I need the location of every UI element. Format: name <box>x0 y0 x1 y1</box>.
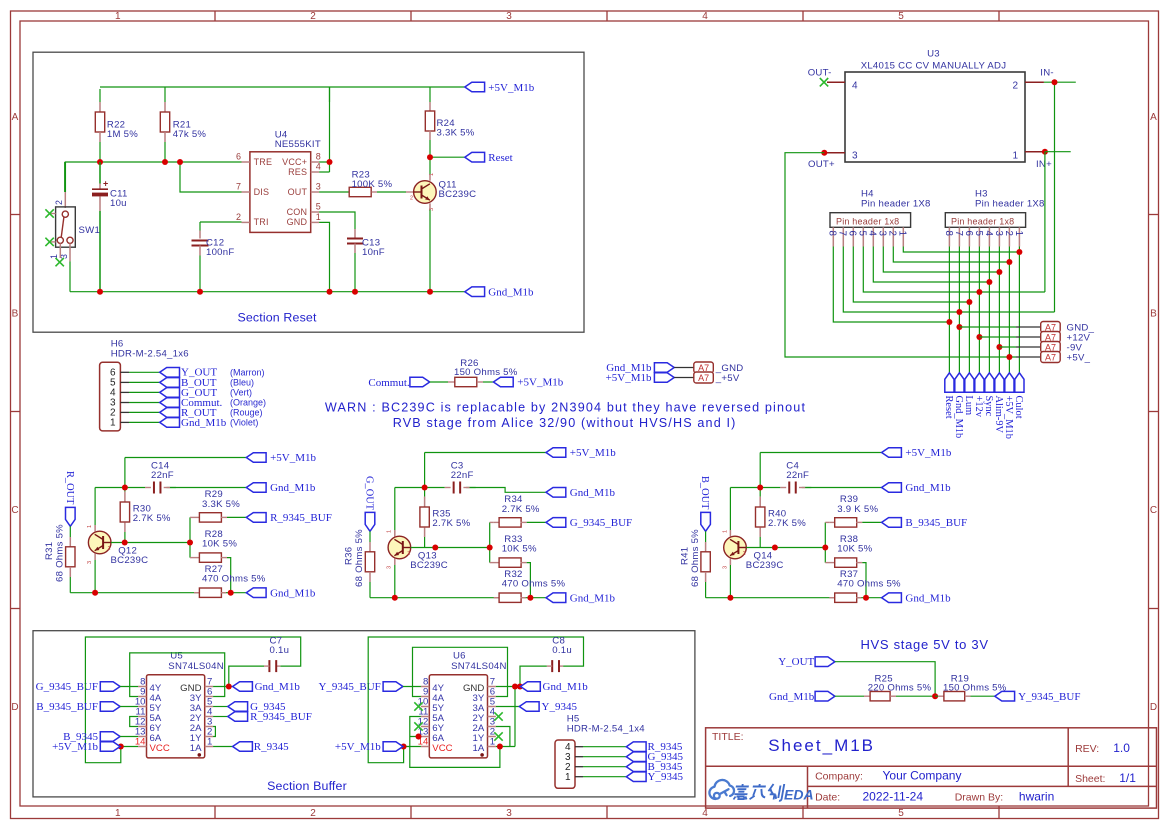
svg-text:(Violet): (Violet) <box>230 418 258 428</box>
svg-text:+5V_: +5V_ <box>1067 353 1091 364</box>
ic U3 XL4015 <box>845 72 1025 162</box>
resistor R36 68 Ohms <box>369 542 371 552</box>
net flag +5V_M1b stage Q14 <box>882 448 902 458</box>
svg-text:Gnd_M1b: Gnd_M1b <box>488 286 534 298</box>
pin U3 pin1 IN+ <box>1025 151 1045 153</box>
svg-text:+12v: +12v <box>973 396 984 418</box>
svg-text:IN-: IN- <box>1040 68 1054 79</box>
svg-text:(Marron): (Marron) <box>230 368 265 378</box>
svg-text:BC239C: BC239C <box>746 560 784 571</box>
wire G_OUT to R36 <box>369 531 371 542</box>
svg-text:R41: R41 <box>679 547 690 565</box>
net flag H5 Y_9345 <box>626 772 646 782</box>
svg-text:4: 4 <box>852 81 858 92</box>
net flag Y_9345 from U6 pin5 <box>496 706 519 708</box>
svg-text:Gnd_M1b: Gnd_M1b <box>570 592 616 604</box>
resistor R27 470 Ohms <box>194 592 200 594</box>
junction dots base row Q14 <box>772 545 778 551</box>
wire R_OUT to R31 <box>69 526 71 537</box>
net flag H6 Commut. <box>160 398 180 408</box>
svg-text:VCC: VCC <box>432 743 452 754</box>
svg-text:Reset: Reset <box>943 396 954 419</box>
svg-text:3: 3 <box>87 561 93 564</box>
svg-text:TRE: TRE <box>254 157 273 167</box>
junction dot reset <box>427 154 433 160</box>
svg-text:XL4015 CC CV MANUALLY ADJ: XL4015 CC CV MANUALLY ADJ <box>861 60 1007 71</box>
svg-text:2.7K 5%: 2.7K 5% <box>768 518 806 529</box>
resistor ('R39', '3.9 K 5%') feedback <box>825 521 829 523</box>
net port A7 -9V <box>996 344 1002 350</box>
svg-text:10u: 10u <box>110 198 127 209</box>
svg-text:HDR-M-2.54_1x4: HDR-M-2.54_1x4 <box>567 724 646 735</box>
resistor R35 (base pullup) <box>424 497 426 507</box>
svg-text:5: 5 <box>316 201 321 211</box>
svg-text:22nF: 22nF <box>451 470 474 481</box>
capacitor C11 <box>99 162 101 184</box>
wire R26 to +5V flag <box>483 381 493 383</box>
net flag Gnd_M1b cap row Q12 <box>246 483 266 493</box>
svg-text:6: 6 <box>236 151 241 161</box>
svg-text:1: 1 <box>87 525 93 528</box>
net flag Gnd_M1b stage Q13 <box>546 593 566 603</box>
svg-text:A7: A7 <box>1045 352 1056 362</box>
junction dot U6 VCC flag <box>401 744 407 750</box>
resistor R33 10K <box>490 562 500 564</box>
svg-text:1: 1 <box>110 418 116 429</box>
net port A7 +5V_ <box>1006 354 1012 360</box>
transistor Q11 <box>414 181 437 204</box>
wire U5 pin7 gnd <box>213 686 233 688</box>
junction dot cap row Q14 <box>757 485 763 491</box>
svg-text:2: 2 <box>108 546 111 552</box>
net flag +5V_M1b <box>465 82 485 92</box>
svg-text:R36: R36 <box>344 547 355 565</box>
svg-text:+5V_M1b: +5V_M1b <box>488 82 534 94</box>
net flag R_9345_BUF <box>246 513 266 523</box>
no-connect x SW1 mid <box>50 241 56 243</box>
net flag +5V_M1b stage Q13 <box>546 448 566 458</box>
svg-text:68 Ohms 5%: 68 Ohms 5% <box>55 524 66 582</box>
svg-text:D: D <box>1150 702 1157 713</box>
svg-text:10nF: 10nF <box>362 247 385 258</box>
junction dot VCC pin8 <box>327 159 333 165</box>
net flag Gnd_M1b U5 <box>233 682 253 692</box>
no-connect x SW1 pin2side <box>50 213 56 215</box>
capacitor C4 22nF <box>780 487 786 489</box>
svg-text:3.3K 5%: 3.3K 5% <box>202 499 240 510</box>
svg-text:1A: 1A <box>190 743 202 754</box>
svg-text:10K 5%: 10K 5% <box>502 544 537 555</box>
junction dot cap row Q12 <box>122 485 128 491</box>
transistor Q12 BC239C <box>88 531 111 554</box>
net flag R_9345 from U5 pin1 <box>213 746 233 748</box>
svg-text:Gnd_M1b: Gnd_M1b <box>270 587 316 599</box>
resistor R32 470 Ohms <box>494 597 500 599</box>
svg-text:Gnd_M1b: Gnd_M1b <box>905 482 951 494</box>
svg-text:SW1: SW1 <box>79 225 101 236</box>
wire U5 VCC rail loop <box>85 637 300 763</box>
resistor R21 <box>164 102 166 112</box>
svg-text:Reset: Reset <box>488 152 512 164</box>
svg-text:HDR-M-2.54_1x6: HDR-M-2.54_1x6 <box>111 348 189 359</box>
svg-text:(Vert): (Vert) <box>230 388 252 398</box>
wire reset row / collector <box>430 140 465 174</box>
wire +5V rail <box>100 87 465 102</box>
svg-text:1: 1 <box>207 736 212 747</box>
svg-text:3: 3 <box>506 11 512 22</box>
svg-text:SN74LS04N: SN74LS04N <box>168 661 224 672</box>
wire U6 1A to GND pin <box>496 687 515 747</box>
svg-text:47k 5%: 47k 5% <box>173 129 207 140</box>
svg-text:2: 2 <box>1003 231 1014 236</box>
net flag Gnd_M1b stage Q14 <box>882 593 902 603</box>
junction dot OUT+ <box>821 150 827 156</box>
svg-text:CON: CON <box>287 207 308 217</box>
svg-text:R_9345_BUF: R_9345_BUF <box>270 512 332 524</box>
svg-text:1.0: 1.0 <box>1113 741 1130 755</box>
svg-text:Company:: Company: <box>815 770 863 782</box>
net flag H6 B_OUT <box>160 378 180 388</box>
svg-text:C: C <box>1150 505 1157 516</box>
svg-text:150 Ohms 5%: 150 Ohms 5% <box>943 683 1007 694</box>
svg-text:Commut.: Commut. <box>368 377 410 389</box>
wire gnd row stage Q12 <box>70 592 246 594</box>
wire IN+ net <box>1045 152 1071 292</box>
junction dot cap row Q13 <box>422 485 428 491</box>
svg-text:DIS: DIS <box>254 187 270 197</box>
svg-text:HVS stage 5V to 3V: HVS stage 5V to 3V <box>860 637 988 652</box>
resistor R28 10K <box>190 557 200 559</box>
net flag G_9345 from U5 pin5 <box>213 706 228 708</box>
svg-text:100K 5%: 100K 5% <box>352 179 393 190</box>
svg-text:Sync: Sync <box>983 396 994 417</box>
svg-text:8: 8 <box>827 231 838 237</box>
wire gnd row stage Q14 <box>706 597 882 599</box>
svg-text:BC239C: BC239C <box>111 555 149 566</box>
resistor R25 220 Ohms <box>864 695 870 697</box>
svg-text:C: C <box>11 505 18 516</box>
svg-text:4: 4 <box>983 231 994 237</box>
svg-text:3: 3 <box>877 231 888 237</box>
svg-text:R_9345_BUF: R_9345_BUF <box>250 711 312 723</box>
wire gnd to R25 <box>835 695 864 697</box>
svg-text:VCC: VCC <box>150 743 170 754</box>
jlc eda logo CJK text <box>733 784 784 801</box>
net flag H6 Y_OUT <box>160 368 180 378</box>
svg-text:1A: 1A <box>473 743 485 754</box>
junction dots H4-H3 matrix <box>1016 249 1022 255</box>
net flag H5 R_9345 <box>626 742 646 752</box>
svg-text:68 Ohms 5%: 68 Ohms 5% <box>690 529 701 587</box>
svg-text:5: 5 <box>857 231 868 237</box>
net flag B_9345_BUF <box>882 518 902 528</box>
svg-text:3: 3 <box>993 231 1004 237</box>
jlc eda logo cloud icon <box>709 780 734 799</box>
svg-text:TRI: TRI <box>254 217 269 227</box>
svg-text:2.7K 5%: 2.7K 5% <box>432 518 470 529</box>
svg-text:6: 6 <box>963 231 974 237</box>
net flag Gnd_M1b cap row Q14 <box>882 483 902 493</box>
svg-text:1M 5%: 1M 5% <box>107 129 138 140</box>
junction dots TRE row <box>97 159 103 165</box>
svg-text:Gnd_M1b: Gnd_M1b <box>543 681 589 693</box>
svg-text:+: + <box>103 179 108 189</box>
svg-text:220 Ohms 5%: 220 Ohms 5% <box>868 683 932 694</box>
svg-text:68 Ohms 5%: 68 Ohms 5% <box>354 529 365 587</box>
svg-text:Culot: Culot <box>1013 396 1024 419</box>
svg-text:U5: U5 <box>170 651 183 662</box>
svg-text:B_9345: B_9345 <box>63 731 98 743</box>
resistor ('R34', '2.7K 5%') feedback <box>490 521 494 523</box>
svg-text:A: A <box>1150 112 1157 123</box>
svg-text:(Orange): (Orange) <box>230 398 266 408</box>
capacitor C13 <box>354 229 356 239</box>
svg-text:3.3K 5%: 3.3K 5% <box>437 128 475 139</box>
wire U6 4A to 3Y loop <box>413 647 508 696</box>
svg-text:1/1: 1/1 <box>1119 771 1136 785</box>
svg-text:Gnd_M1b: Gnd_M1b <box>270 482 316 494</box>
svg-text:4: 4 <box>316 161 321 171</box>
svg-text:10K 5%: 10K 5% <box>202 539 237 550</box>
resistor R30 (base pullup) <box>124 492 126 502</box>
pin1 marker U6 <box>480 753 484 757</box>
svg-text:0.1u: 0.1u <box>552 645 572 656</box>
wire CON row <box>319 212 355 229</box>
svg-text:3: 3 <box>316 181 321 191</box>
svg-text:BC239C: BC239C <box>439 189 477 200</box>
capacitor C14 22nF <box>145 487 151 489</box>
wire U6 2A to gnd net <box>496 727 510 747</box>
svg-text:1: 1 <box>316 212 321 222</box>
wire Y_OUT to divider <box>835 662 935 697</box>
wire base row Q13 <box>411 522 490 562</box>
svg-text:14: 14 <box>135 736 146 747</box>
svg-text:U6: U6 <box>453 651 466 662</box>
svg-text:2: 2 <box>410 196 413 202</box>
wire GND pin1 row <box>319 222 329 291</box>
wire H4 matrix rows <box>833 247 1054 323</box>
svg-text:+5V_M1b: +5V_M1b <box>905 447 951 459</box>
wire cap row stage Q14 <box>730 488 881 531</box>
wire collector Q12 <box>94 525 96 532</box>
junction dots U6 1A <box>497 744 503 750</box>
svg-text:+5V_M1b: +5V_M1b <box>570 447 616 459</box>
section buffer bounding box <box>33 631 695 797</box>
wire TRE row / node pin6 <box>65 142 242 192</box>
net flag Gnd_M1b U6 <box>521 682 541 692</box>
svg-text:B: B <box>1150 309 1157 320</box>
resistor ('R29', '3.3K 5%') feedback <box>190 516 194 518</box>
svg-text:4: 4 <box>702 808 708 819</box>
svg-text:Section Buffer: Section Buffer <box>267 779 347 793</box>
svg-text:2: 2 <box>310 808 316 819</box>
wire U5 2A-1Y loop <box>213 727 215 737</box>
svg-text:7: 7 <box>837 231 848 236</box>
net flag Reset <box>465 152 485 162</box>
capacitor C7 0.1u <box>276 665 280 667</box>
junction dots base row Q12 <box>122 540 128 546</box>
net port A7 +12V <box>976 334 982 340</box>
net flag Gnd_M1b reset <box>465 287 485 297</box>
svg-text:Y_9345: Y_9345 <box>648 771 684 783</box>
svg-text:0.1u: 0.1u <box>270 645 290 656</box>
svg-text:2: 2 <box>310 11 316 22</box>
capacitor C8 0.1u <box>559 665 563 667</box>
wire VCC-RES vertical <box>319 87 329 172</box>
svg-text:1: 1 <box>565 772 571 783</box>
svg-text:Gnd_M1b: Gnd_M1b <box>181 417 227 429</box>
svg-text:2.7K 5%: 2.7K 5% <box>502 504 540 515</box>
svg-text:OUT-: OUT- <box>808 68 832 79</box>
net flag R_9345_BUF from U5 pin4 <box>213 716 228 718</box>
svg-text:3: 3 <box>506 808 512 819</box>
pin1 marker U5 <box>198 753 202 757</box>
svg-text:R31: R31 <box>44 542 55 560</box>
svg-text:5: 5 <box>898 11 904 22</box>
pin U3 pin2 IN- <box>1025 81 1044 83</box>
wire IN- net <box>1044 82 1076 312</box>
svg-text:+5V_M1b: +5V_M1b <box>517 377 563 389</box>
wire emitter Q12 <box>94 554 96 561</box>
svg-text:7: 7 <box>953 231 964 236</box>
svg-text:VCC+: VCC+ <box>282 157 307 167</box>
svg-text:Y_9345_BUF: Y_9345_BUF <box>1018 691 1080 703</box>
svg-text:3: 3 <box>722 566 728 569</box>
junction dots gnd row Q12 <box>92 590 98 596</box>
no-connect x U6 pin2 <box>494 732 502 740</box>
svg-text:4: 4 <box>867 231 878 237</box>
resistor R31 68 Ohms <box>69 537 71 547</box>
wire +5V rail stage Q14 <box>760 453 881 497</box>
net flag H6 R_OUT <box>160 408 180 418</box>
net flag Gnd_M1b stage Q12 <box>246 588 266 598</box>
svg-text:G_9345_BUF: G_9345_BUF <box>570 517 632 529</box>
svg-text:1: 1 <box>1012 151 1018 162</box>
resistor R41 68 Ohms <box>705 542 707 552</box>
net flag H5 G_9345 <box>626 752 646 762</box>
capacitor C3 22nF <box>445 487 451 489</box>
junction dot U5 VCC flag <box>118 744 124 750</box>
svg-text:Gnd_M1b: Gnd_M1b <box>953 396 964 439</box>
svg-text:Y_9345_BUF: Y_9345_BUF <box>318 681 380 693</box>
resistor R38 10K <box>825 562 835 564</box>
wire gnd row stage Q13 <box>370 597 546 599</box>
resistor R24 <box>429 102 431 112</box>
svg-text:TITLE:: TITLE: <box>712 731 744 743</box>
svg-text:+5V_M1b: +5V_M1b <box>270 452 316 464</box>
resistor R19 150 Ohms <box>935 695 938 697</box>
net flag Y_9345_BUF hvs <box>995 691 1015 701</box>
svg-text:B_9345_BUF: B_9345_BUF <box>905 517 967 529</box>
svg-text:A7: A7 <box>698 373 709 383</box>
svg-text:Your Company: Your Company <box>883 768 962 782</box>
wire collector Q13 <box>394 530 396 537</box>
svg-text:G_9345_BUF: G_9345_BUF <box>36 681 98 693</box>
junction dot hvs divider <box>932 693 938 699</box>
wire cap row stage Q13 <box>395 488 546 531</box>
resistor R22 <box>99 102 101 112</box>
wire collector Q14 <box>729 530 731 537</box>
svg-text:REV:: REV: <box>1075 743 1099 755</box>
wire C11 to gnd <box>99 211 101 292</box>
wire SW1 pin3 to gnd <box>69 243 71 261</box>
svg-text:(Rouge): (Rouge) <box>230 408 263 418</box>
svg-text:2: 2 <box>887 231 898 236</box>
svg-text:470 Ohms 5%: 470 Ohms 5% <box>502 579 566 590</box>
svg-text:SN74LS04N: SN74LS04N <box>451 661 507 672</box>
svg-text:WARN : BC239C is replacable by: WARN : BC239C is replacable by 2N3904 bu… <box>325 401 806 415</box>
svg-text:Date:: Date: <box>815 792 840 804</box>
svg-text:2: 2 <box>743 551 746 557</box>
svg-text:U3: U3 <box>927 49 940 60</box>
svg-text:8: 8 <box>316 151 321 161</box>
junction dot IN+ <box>1042 149 1048 155</box>
junction dot U6 gnd <box>517 684 523 690</box>
capacitor C12 <box>200 222 242 231</box>
wire base row Q14 <box>746 522 825 562</box>
wire emitter Q14 <box>729 559 731 566</box>
svg-text:hwarin: hwarin <box>1019 790 1054 804</box>
svg-text:7: 7 <box>236 181 241 191</box>
svg-text:R_OUT: R_OUT <box>64 471 75 505</box>
svg-text:NE555KIT: NE555KIT <box>275 139 321 150</box>
net flag Gnd_M1b cap row Q13 <box>546 488 566 498</box>
svg-text:Drawn By:: Drawn By: <box>955 792 1003 804</box>
svg-text:Y_OUT: Y_OUT <box>778 656 814 668</box>
wire U6 pin7 gnd <box>496 686 521 688</box>
transistor Q13 BC239C <box>388 536 411 559</box>
svg-text:2: 2 <box>54 200 64 205</box>
junction dots gnd row Q14 <box>727 595 733 601</box>
svg-text:2: 2 <box>1012 81 1018 92</box>
svg-text:Y_9345: Y_9345 <box>542 701 578 713</box>
junction dot IN- <box>1052 79 1058 85</box>
svg-text:R_9345: R_9345 <box>254 741 289 753</box>
svg-text:Lum: Lum <box>963 396 974 416</box>
wire U6 VCC rail loop <box>368 637 583 763</box>
svg-text:+5V_M1b: +5V_M1b <box>335 741 381 753</box>
resistor R40 (base pullup) <box>759 497 761 507</box>
wire OUT row <box>319 191 349 193</box>
net flag G_9345_BUF <box>546 518 566 528</box>
pin U3 pin4 with no-connect <box>827 81 845 83</box>
svg-text:150 Ohms 5%: 150 Ohms 5% <box>454 367 518 378</box>
svg-text:Alim-9V: Alim-9V <box>993 396 1004 434</box>
svg-text:B: B <box>12 309 19 320</box>
svg-text:RES: RES <box>288 167 307 177</box>
wire U6 pin13 6A <box>420 736 422 738</box>
svg-text:2: 2 <box>236 212 241 222</box>
junction dot U6 6A <box>416 734 422 740</box>
svg-text:5: 5 <box>973 231 984 237</box>
net port A7 GND_ <box>956 324 962 330</box>
svg-text:GND: GND <box>287 217 308 227</box>
wire H3 columns to bottom connector <box>949 247 1019 373</box>
wire emitter Q13 <box>394 559 396 566</box>
svg-text:B_9345_BUF: B_9345_BUF <box>36 701 98 713</box>
svg-text:Pin header 1x8: Pin header 1x8 <box>836 216 899 226</box>
svg-text:A: A <box>12 112 19 123</box>
svg-text:+5V_M1b: +5V_M1b <box>606 372 652 384</box>
wire base row Q12 <box>111 517 190 557</box>
svg-text:IN+: IN+ <box>1036 159 1052 170</box>
wire U5 4A to 3Y loop <box>130 653 225 697</box>
ic U5 SN74LS04N <box>147 675 205 758</box>
svg-text:Sheet:: Sheet: <box>1075 773 1105 785</box>
junction dots gnd row Q13 <box>392 595 398 601</box>
pin U3 pin3 OUT+ <box>824 152 845 154</box>
svg-text:RVB stage from Alice 32/90 (wi: RVB stage from Alice 32/90 (without HVS/… <box>393 416 737 430</box>
